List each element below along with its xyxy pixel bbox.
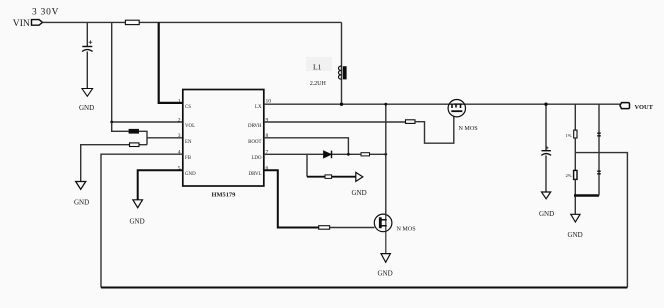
svg-text:2.2UH: 2.2UH bbox=[310, 80, 327, 87]
svg-text:L1: L1 bbox=[313, 63, 322, 72]
resistor R_en_top bbox=[129, 129, 138, 133]
svg-text:1: 1 bbox=[178, 98, 181, 104]
wire DRVL pin6 thick bbox=[264, 170, 319, 227]
svg-text:EN: EN bbox=[185, 140, 192, 145]
resistor R small (gnd branch) bbox=[325, 175, 332, 179]
svg-text:N MOS: N MOS bbox=[397, 227, 417, 233]
junction boot node bbox=[347, 153, 350, 156]
resistor R boot bbox=[361, 153, 370, 156]
svg-text:GND: GND bbox=[79, 104, 94, 112]
svg-text:FB: FB bbox=[185, 156, 192, 161]
svg-text:GND: GND bbox=[185, 172, 196, 177]
wire EN pin3 bbox=[147, 137, 183, 139]
svg-text:DRVL: DRVL bbox=[249, 172, 262, 177]
svg-text:GND: GND bbox=[130, 218, 145, 226]
wire bottom feedback loop bbox=[101, 287, 627, 289]
junction inductor/rail bbox=[340, 103, 343, 106]
ground arrow (input cap) bbox=[82, 89, 93, 97]
transistor Q1 high-side N MOS bbox=[448, 100, 465, 117]
junction VOL tap bbox=[110, 121, 113, 124]
wire FB pin4 to big loop bbox=[101, 154, 183, 287]
ground arrow (EN divider) bbox=[76, 182, 86, 190]
svg-text:2%: 2% bbox=[566, 173, 572, 178]
wire CS thick from rail to pin1 bbox=[159, 22, 183, 103]
resistor R2 2% bbox=[574, 170, 577, 179]
wire between divider resistors bbox=[574, 138, 576, 170]
inductor L1 core bar bbox=[343, 66, 347, 79]
wire LDO to right-ground branch bbox=[306, 154, 308, 176]
transistor Q2 low-side N MOS bbox=[374, 214, 392, 232]
ground arrow (divider) bbox=[571, 214, 580, 222]
svg-text:BOOT: BOOT bbox=[248, 140, 261, 145]
op IC U1 HM5179 body bbox=[183, 90, 264, 187]
capacitor C4 small bbox=[597, 171, 601, 174]
wire cap to ground bbox=[545, 155, 547, 192]
svg-text:LDO: LDO bbox=[251, 156, 262, 161]
svg-text:3 30V: 3 30V bbox=[32, 8, 59, 18]
wire gate path to top mosfet bbox=[415, 117, 454, 144]
svg-text:VOUT: VOUT bbox=[635, 104, 654, 111]
wire right feedback riser bbox=[575, 153, 627, 288]
wire GND pin5 thick bbox=[138, 170, 183, 200]
junction lx rail bbox=[384, 103, 387, 106]
ground arrow (low mosfet) bbox=[381, 254, 390, 263]
diode D1 bbox=[324, 151, 332, 158]
svg-text:GND: GND bbox=[568, 231, 583, 239]
capacitor C3 small bbox=[597, 133, 601, 136]
svg-text:LX: LX bbox=[255, 105, 262, 110]
svg-text:GND: GND bbox=[539, 210, 554, 218]
wire input cap branch bbox=[86, 22, 88, 46]
wire LX rail pin10 to VOUT bbox=[264, 103, 620, 105]
resistor R1 1% bbox=[574, 130, 577, 138]
svg-text:GND: GND bbox=[352, 189, 367, 197]
wire output cap branch bbox=[545, 104, 547, 150]
svg-text:VOL: VOL bbox=[185, 124, 195, 129]
svg-text:2: 2 bbox=[178, 117, 181, 123]
resistor R gate low bbox=[319, 226, 330, 230]
port VIN tag bbox=[32, 20, 43, 26]
wire BOOT pin8 bbox=[264, 138, 349, 155]
inductor L1 coil bbox=[339, 66, 342, 79]
wire cap to ground bbox=[86, 52, 88, 89]
ground arrow sideways (LDO branch) bbox=[356, 172, 363, 181]
wire LDO pin7 bbox=[264, 153, 386, 155]
wire EN divider lower leg bbox=[81, 145, 147, 182]
svg-text:DRVH: DRVH bbox=[248, 124, 262, 129]
wire right-ground horizontal bbox=[307, 176, 356, 178]
wire top rail VIN bbox=[43, 21, 342, 23]
svg-text:VIN: VIN bbox=[13, 18, 30, 29]
wire inductor drop from top rail bbox=[341, 22, 343, 104]
wire VIN tap to VOL pin2 bbox=[112, 22, 183, 122]
svg-text:N MOS: N MOS bbox=[459, 126, 479, 132]
svg-text:CS: CS bbox=[185, 105, 191, 110]
wire divider branch B bbox=[598, 104, 600, 195]
svg-text:GND: GND bbox=[74, 199, 89, 207]
svg-text:GND: GND bbox=[378, 270, 393, 278]
wire divider branch A top bbox=[574, 104, 576, 130]
svg-text:10: 10 bbox=[266, 98, 272, 104]
ground arrow (pin5) bbox=[133, 200, 143, 208]
label L1 (faint) bbox=[306, 57, 332, 71]
junction output cap bbox=[544, 103, 547, 106]
resistor R_en_bottom bbox=[130, 143, 140, 147]
svg-text:3: 3 bbox=[178, 133, 181, 139]
ground arrow (output cap) bbox=[542, 192, 551, 199]
port VOUT tag bbox=[620, 103, 630, 109]
capacitor C1 polarized input bbox=[82, 46, 92, 48]
wire VOL node down to EN divider bbox=[112, 122, 129, 131]
resistor R gate high bbox=[406, 120, 416, 124]
wire thick bar joining branches bbox=[574, 194, 599, 197]
wire below R2 to ground bbox=[574, 179, 576, 214]
capacitor C2 output polarized bbox=[542, 150, 551, 152]
junction lx node bbox=[384, 153, 387, 156]
svg-text:1%: 1% bbox=[566, 133, 572, 138]
resistor R sense (in top rail) bbox=[125, 20, 139, 24]
svg-text:HM5179: HM5179 bbox=[212, 192, 236, 199]
wire DRVH pin9 gate path bbox=[264, 121, 406, 123]
wire lx drop to low mosfet bbox=[385, 104, 387, 214]
wire gate low to mosfet bbox=[330, 227, 375, 229]
wire R_en_top to EN junction bbox=[139, 131, 148, 144]
